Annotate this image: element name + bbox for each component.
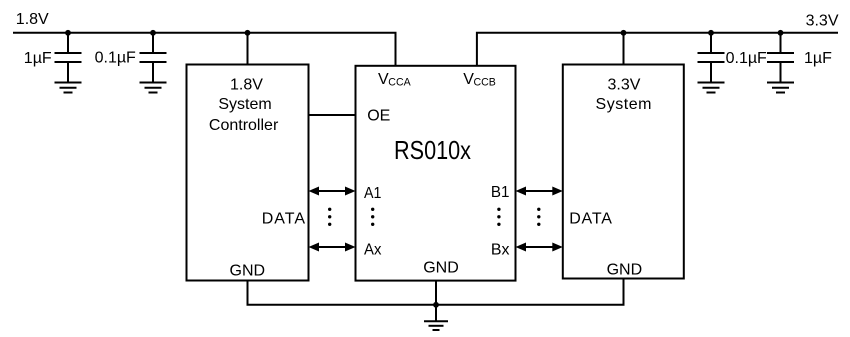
bus arrow A1 (309, 187, 356, 196)
ellipsis A bus (328, 208, 331, 226)
svg-text:GND: GND (230, 263, 266, 280)
wire OE (309, 114, 356, 116)
wire U3 supply drop (623, 33, 625, 65)
junction dot U1 supply (245, 30, 251, 36)
svg-text:RS010x: RS010x (394, 135, 471, 165)
svg-text:A1: A1 (364, 185, 381, 202)
ellipsis B pins (497, 208, 500, 226)
svg-text:1.8V: 1.8V (16, 11, 49, 28)
pin label VCCA (378, 71, 412, 89)
svg-text:CCA: CCA (388, 77, 411, 89)
svg-text:OE: OE (367, 107, 390, 124)
ground C4 (767, 83, 794, 93)
svg-text:0.1µF: 0.1µF (726, 50, 767, 67)
wire U2 GND drop (435, 281, 437, 321)
capacitor C4 (767, 33, 794, 83)
ellipsis B bus (537, 208, 540, 226)
junction dot C1 (65, 30, 71, 36)
block U3 3.3V System (563, 65, 684, 279)
label U1 title 1.8V System Controller (209, 77, 279, 135)
block U2 RS010x (356, 66, 516, 281)
svg-text:Ax: Ax (364, 241, 381, 258)
svg-text:System: System (218, 96, 271, 113)
ellipsis A pins (371, 208, 374, 226)
wire 3.3V rail with VCCB drop (477, 33, 838, 67)
bus arrow Ax (309, 243, 356, 252)
junction dot U3 supply (621, 30, 627, 36)
capacitor C2 (140, 33, 167, 83)
ground main (424, 321, 448, 330)
svg-text:1µF: 1µF (804, 50, 832, 67)
junction dot C3 (708, 30, 714, 36)
svg-text:3.3V: 3.3V (608, 77, 641, 94)
bus arrow Bx (516, 243, 563, 252)
wire 1.8V rail with VCCA drop (13, 33, 396, 67)
svg-text:DATA: DATA (262, 210, 306, 227)
junction dot C2 (150, 30, 156, 36)
svg-text:0.1µF: 0.1µF (95, 50, 136, 67)
svg-text:3.3V: 3.3V (806, 12, 839, 29)
pin label VCCB (463, 71, 496, 89)
wire U1 supply drop (247, 33, 249, 65)
svg-text:GND: GND (607, 261, 643, 278)
capacitor C1 (55, 33, 82, 83)
svg-text:1µF: 1µF (24, 50, 52, 67)
wire U3 GND drop (623, 279, 625, 305)
svg-text:Bx: Bx (491, 241, 510, 258)
junction dot C4 (778, 30, 784, 36)
ground C2 (140, 83, 167, 93)
wire U1 GND drop (247, 281, 249, 305)
label U3 title 3.3V System (596, 77, 652, 114)
svg-text:System: System (596, 96, 652, 113)
bus arrow B1 (516, 187, 563, 196)
svg-text:Controller: Controller (209, 117, 279, 134)
svg-text:DATA: DATA (569, 210, 612, 227)
junction dot ground (433, 302, 439, 308)
svg-text:B1: B1 (491, 184, 510, 201)
wire ground rail (247, 304, 625, 306)
svg-text:GND: GND (423, 260, 459, 277)
svg-text:1.8V: 1.8V (230, 77, 263, 94)
svg-text:CCB: CCB (474, 77, 496, 89)
block U1 1.8V System Controller (187, 65, 309, 281)
ground C1 (55, 83, 82, 93)
capacitor C3 (698, 33, 725, 83)
ground C3 (698, 83, 725, 93)
